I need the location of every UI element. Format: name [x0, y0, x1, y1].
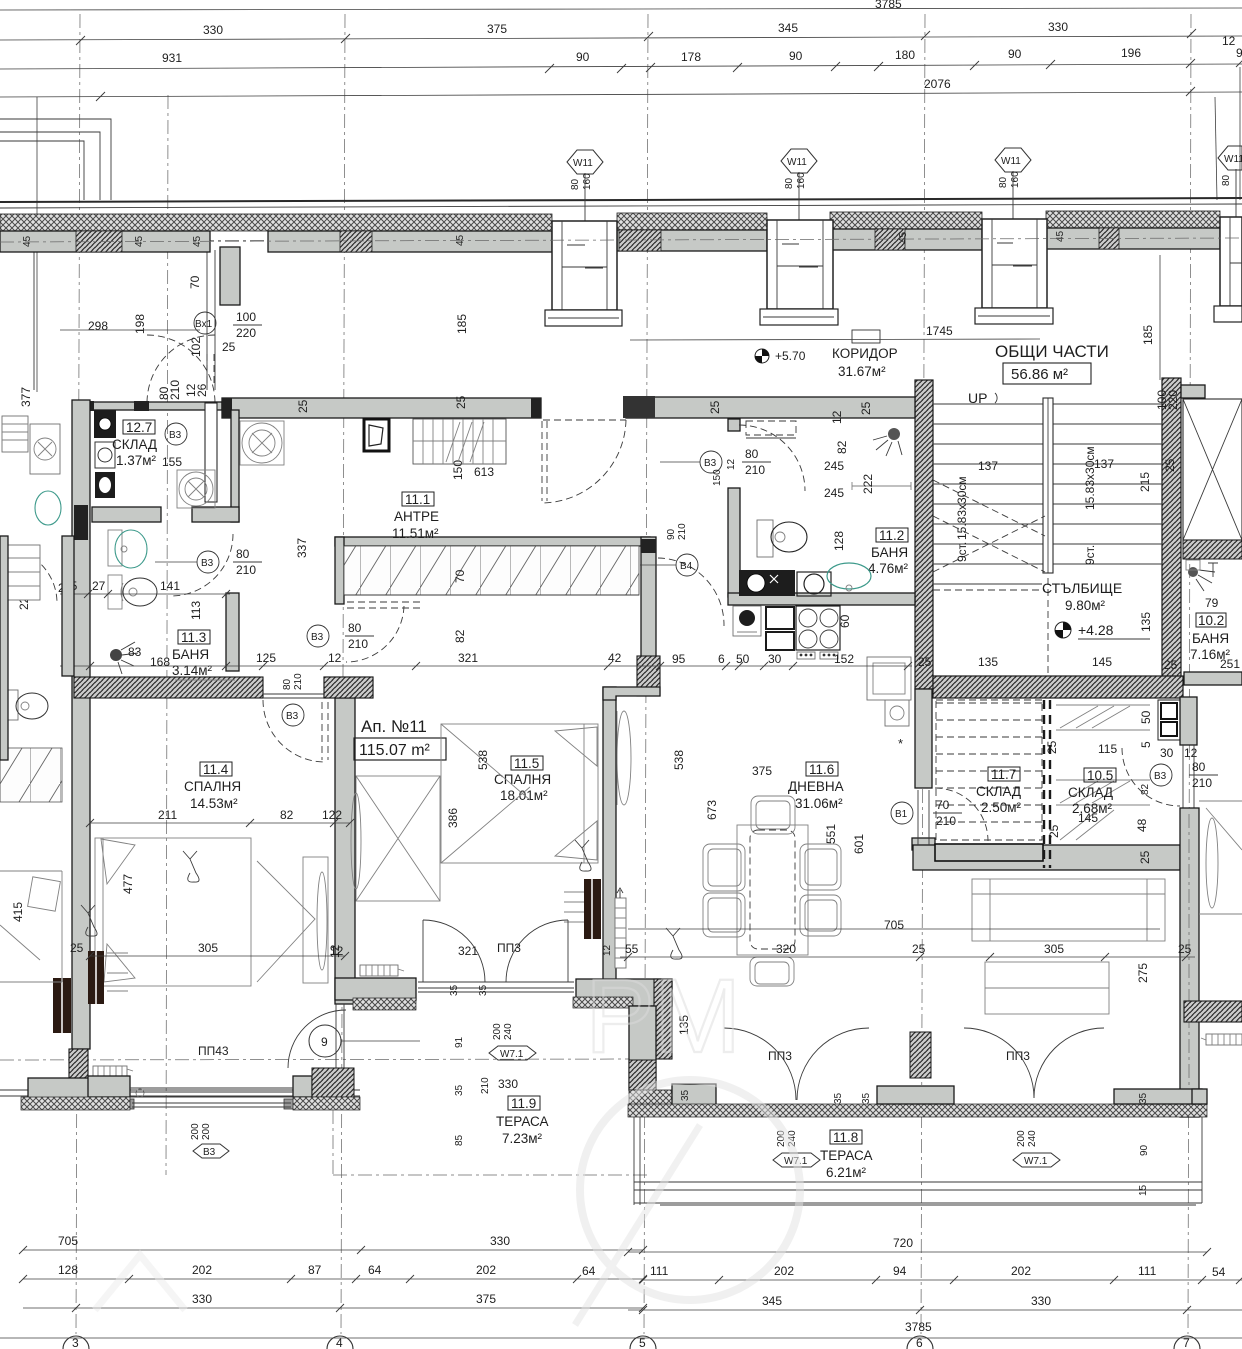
svg-text:305: 305 — [198, 941, 218, 955]
bath 11.3 sink — [108, 530, 147, 568]
wall left exterior hatched foot — [69, 1049, 88, 1088]
B3 door closet area — [307, 621, 374, 651]
svg-text:538: 538 — [476, 750, 490, 770]
svg-text:200: 200 — [1016, 1130, 1027, 1147]
svg-text:321: 321 — [458, 651, 478, 665]
bedroom2 south wall — [335, 978, 672, 1010]
top dimension row 3 (931 90 178 90 180 90 196) — [0, 46, 1242, 73]
bedroom1 radiator ticks — [107, 953, 128, 991]
svg-text:141: 141 — [160, 579, 180, 593]
svg-text:25: 25 — [918, 655, 932, 669]
stairwell bottom wall — [933, 676, 1183, 698]
right terrace door sills — [877, 1032, 1207, 1104]
living terrace door 1 arcs — [724, 1028, 869, 1100]
svg-text:12: 12 — [830, 410, 844, 424]
bath 11.3 door dashed — [171, 534, 233, 596]
window pp43 threshold — [130, 1044, 293, 1107]
svg-text:ПП3: ПП3 — [768, 1049, 792, 1063]
skl wc dark — [95, 472, 115, 498]
svg-text:128: 128 — [58, 1263, 78, 1277]
bathroom 10.2 neighbour — [1188, 563, 1240, 671]
svg-text:330: 330 — [490, 1234, 510, 1248]
corridor label — [832, 330, 898, 379]
svg-text:4.76м²: 4.76м² — [868, 561, 909, 576]
svg-text:64: 64 — [368, 1263, 382, 1277]
svg-text:11.2: 11.2 — [879, 528, 904, 543]
svg-text:25: 25 — [296, 399, 310, 413]
bedroom1 dim row — [70, 808, 354, 960]
living dim row — [620, 918, 1195, 1035]
svg-text:90: 90 — [666, 528, 677, 540]
room label bath 11.2 — [868, 528, 909, 576]
svg-text:В3: В3 — [201, 558, 214, 569]
svg-text:6.21м²: 6.21м² — [826, 1165, 867, 1180]
svg-text:В3: В3 — [311, 632, 324, 643]
window W11 #4 right edge — [1214, 146, 1242, 322]
svg-text:СКЛАД: СКЛАД — [1068, 785, 1113, 800]
reinforced column segments in top wall — [76, 228, 1119, 252]
lamp symbol bedroom1 — [183, 851, 199, 882]
svg-text:26: 26 — [195, 383, 209, 397]
small 45 labels on wall band — [22, 230, 1066, 247]
bedroom2 radiator — [584, 879, 601, 939]
svg-text:137: 137 — [1094, 457, 1114, 471]
shelf icon right edge — [1201, 1034, 1242, 1045]
storage 10.5 door dashed — [1122, 748, 1180, 806]
svg-text:155: 155 — [162, 455, 182, 469]
interior dim line y666 — [60, 579, 912, 670]
left terrace wall slabs — [21, 1068, 360, 1110]
svg-text:145: 145 — [1078, 811, 1098, 825]
svg-text:6: 6 — [916, 1336, 923, 1349]
svg-text:*: * — [898, 736, 903, 751]
svg-text:82: 82 — [453, 629, 467, 643]
svg-text:210: 210 — [348, 637, 368, 651]
svg-text:202: 202 — [476, 1263, 496, 1277]
svg-text:102: 102 — [189, 337, 203, 357]
svg-text:83: 83 — [128, 645, 142, 659]
towel ladder — [615, 888, 626, 968]
svg-text:202: 202 — [192, 1263, 212, 1277]
svg-text:30: 30 — [768, 652, 782, 666]
dimension 185 vertical right — [1141, 255, 1160, 380]
svg-text:12: 12 — [602, 944, 613, 956]
svg-text:80: 80 — [1221, 174, 1232, 186]
svg-text:6: 6 — [718, 652, 725, 666]
svg-text:W11: W11 — [573, 158, 593, 169]
bath 11.2 shelf dashed — [746, 421, 796, 438]
svg-text:60: 60 — [838, 614, 852, 628]
bath 11.2 dims — [296, 395, 875, 628]
svg-text:45: 45 — [1055, 230, 1066, 242]
svg-text:35: 35 — [454, 1084, 465, 1096]
svg-text:ПП43: ПП43 — [198, 1044, 229, 1058]
storage 11.7 door B1 dashed — [935, 788, 988, 841]
closet sliding door dashed — [347, 602, 420, 608]
svg-text:210: 210 — [1192, 776, 1212, 790]
svg-text:87: 87 — [308, 1263, 322, 1277]
svg-text:80: 80 — [282, 678, 293, 690]
svg-text:12: 12 — [330, 944, 344, 958]
svg-text:210: 210 — [480, 1077, 491, 1094]
svg-text:160: 160 — [582, 173, 593, 190]
svg-text:70: 70 — [453, 569, 467, 583]
W7.1 hexagon terrace door 2 — [1013, 1130, 1060, 1167]
kitchen-bath west wall — [728, 419, 740, 597]
skl sink unit dark — [94, 410, 116, 468]
svg-text:210: 210 — [936, 814, 956, 828]
svg-text:В4: В4 — [680, 561, 693, 572]
svg-text:+5.70: +5.70 — [775, 349, 806, 363]
svg-text:90: 90 — [576, 50, 590, 64]
bath 11.2 towel rail — [852, 482, 911, 490]
room label skl 12.7 — [112, 420, 187, 469]
svg-text:122: 122 — [322, 808, 342, 822]
storage dims — [1047, 811, 1152, 864]
svg-text:375: 375 — [752, 764, 772, 778]
top facade double line — [0, 198, 1242, 208]
stair central rail — [1043, 398, 1053, 573]
window W11 #1 — [545, 150, 622, 326]
room label antre 11.1 — [392, 492, 439, 541]
svg-text:160: 160 — [796, 172, 807, 189]
room label skl 11.7 — [976, 767, 1022, 815]
room label bath 11.3 — [172, 630, 213, 678]
svg-text:9ст.: 9ст. — [1083, 545, 1097, 565]
svg-text:ТЕРАСА: ТЕРАСА — [496, 1114, 549, 1129]
kitchen sink unit bath wall — [739, 570, 831, 596]
svg-text:В3: В3 — [203, 1147, 216, 1158]
svg-text:375: 375 — [476, 1292, 496, 1306]
svg-text:125: 125 — [256, 651, 276, 665]
svg-text:55: 55 — [625, 942, 639, 956]
svg-text:45: 45 — [22, 235, 33, 247]
apartment label — [354, 717, 446, 760]
terrace 11.9 boundary dashdot — [333, 1110, 648, 1175]
svg-text:200: 200 — [492, 1023, 503, 1040]
svg-text:56.86 м²: 56.86 м² — [1011, 366, 1068, 383]
svg-text:215: 215 — [1138, 472, 1152, 492]
svg-text:7.23м²: 7.23м² — [502, 1131, 543, 1146]
svg-text:113: 113 — [189, 601, 203, 620]
stairwell label — [1042, 580, 1150, 639]
construction axis 4 vertical — [341, 14, 345, 1334]
svg-text:25: 25 — [859, 401, 873, 415]
svg-text:11.3: 11.3 — [181, 630, 206, 645]
svg-text:135: 135 — [978, 655, 998, 669]
wall washniche east — [231, 410, 239, 522]
shaft box antre ne — [364, 419, 389, 451]
bath10.2 south wall — [1184, 672, 1242, 685]
svg-text:100: 100 — [236, 310, 256, 324]
bedroom1 bed — [95, 838, 315, 986]
svg-text:12: 12 — [328, 651, 342, 665]
wall skl top thin — [84, 401, 222, 411]
svg-text:185: 185 — [455, 314, 469, 334]
washer in skl — [177, 470, 215, 508]
horizontal axis left lower — [0, 1059, 640, 1060]
small shaft below stairwell — [1045, 700, 1198, 760]
svg-text:198: 198 — [133, 314, 147, 334]
svg-text:Ап. №11: Ап. №11 — [361, 717, 427, 736]
elevator shaft right top — [1181, 385, 1242, 559]
svg-text:СПАЛНЯ: СПАЛНЯ — [494, 772, 551, 787]
svg-text:БАНЯ: БАНЯ — [871, 545, 908, 560]
svg-text:330: 330 — [1048, 20, 1068, 34]
neighbour bed partial — [0, 871, 62, 982]
junction hatched block — [324, 677, 373, 698]
wall bedroom2-living — [603, 687, 660, 981]
watermark letters — [95, 958, 800, 1325]
top dimension row 1 line — [0, 0, 1242, 11]
apartment entrance door dashed — [541, 420, 626, 503]
svg-text:601: 601 — [852, 834, 866, 854]
B3 door antre-bedroom1 — [282, 673, 304, 726]
neighbour radiator — [53, 978, 71, 1033]
svg-text:70: 70 — [188, 275, 202, 289]
svg-text:5: 5 — [1139, 741, 1153, 748]
svg-text:14.53м²: 14.53м² — [190, 796, 238, 811]
closet wardrobe hatch — [344, 546, 639, 595]
svg-text:1745: 1745 — [926, 324, 953, 338]
svg-text:11.8: 11.8 — [833, 1130, 858, 1145]
lamp symbol left — [81, 905, 97, 936]
sofa living — [972, 879, 1165, 941]
svg-text:330: 330 — [203, 23, 223, 37]
closet top wall — [335, 537, 656, 672]
neighbour washer column left — [2, 416, 61, 720]
svg-text:11.7: 11.7 — [991, 767, 1016, 782]
svg-text:27: 27 — [92, 579, 106, 593]
bath 11.2 wc — [757, 520, 807, 557]
svg-text:В1: В1 — [895, 809, 908, 820]
svg-text:+4.28: +4.28 — [1078, 622, 1114, 638]
dimensions near entrance — [60, 275, 262, 357]
neighbour wardrobe hatched — [0, 748, 62, 802]
svg-text:91: 91 — [454, 1036, 465, 1048]
svg-text:W11: W11 — [787, 157, 807, 168]
svg-text:64: 64 — [582, 1264, 596, 1278]
svg-text:31.67м²: 31.67м² — [838, 364, 886, 379]
svg-text:245: 245 — [824, 486, 844, 500]
neighbour bed right edge — [1199, 801, 1242, 914]
svg-text:245: 245 — [824, 459, 844, 473]
dimension 185 vertical left — [455, 314, 469, 334]
door jamb pillar hatched — [654, 979, 672, 1059]
svg-text:5: 5 — [639, 1336, 646, 1349]
svg-text:25: 25 — [1164, 658, 1178, 672]
bath 11.3 shower head — [110, 642, 138, 674]
svg-text:2076: 2076 — [924, 77, 951, 91]
svg-text:551: 551 — [824, 824, 838, 844]
svg-text:220: 220 — [1166, 390, 1180, 410]
svg-text:ОБЩИ ЧАСТИ: ОБЩИ ЧАСТИ — [995, 342, 1109, 361]
secondary axis vertical x167 — [166, 95, 168, 1175]
svg-text:15.83х30см: 15.83х30см — [1083, 446, 1097, 510]
svg-text:12: 12 — [1184, 746, 1198, 760]
entrance opening stub wall — [220, 247, 240, 305]
svg-text:12: 12 — [726, 458, 737, 470]
svg-text:35: 35 — [861, 1092, 872, 1104]
svg-text:345: 345 — [778, 21, 798, 35]
svg-text:222: 222 — [861, 474, 875, 494]
svg-text:185: 185 — [1141, 325, 1155, 345]
bath 10.2 small fixtures — [1186, 560, 1200, 570]
top wall insulation crosshatch band — [0, 211, 1220, 231]
construction axis 5 vertical — [644, 14, 648, 1334]
window W11 #2 — [760, 149, 838, 325]
svg-text:111: 111 — [1138, 1264, 1157, 1278]
svg-text:128: 128 — [832, 531, 846, 551]
towel rail bath 11.3 — [175, 679, 235, 681]
storage 10.5 shelves — [1056, 705, 1150, 840]
wall antre top — [222, 398, 541, 418]
svg-text:35: 35 — [478, 984, 489, 996]
svg-text:220: 220 — [236, 326, 256, 340]
svg-text:145: 145 — [1092, 655, 1112, 669]
svg-text:298: 298 — [88, 319, 108, 333]
wall skl east — [205, 403, 217, 502]
svg-text:720: 720 — [893, 1236, 913, 1250]
svg-text:931: 931 — [162, 51, 182, 65]
right vertical dimension line — [1215, 67, 1240, 200]
svg-text:12.7: 12.7 — [126, 420, 152, 435]
svg-text:25: 25 — [1047, 824, 1061, 838]
stairwell left wall — [915, 380, 933, 689]
storage 11.7 understair dashed shelves — [936, 700, 1042, 840]
svg-text:705: 705 — [58, 1234, 78, 1248]
left dims bath — [11, 581, 203, 922]
svg-text:РМ: РМ — [585, 958, 741, 1075]
kitchen appliances row — [733, 606, 840, 659]
bedroom2 dims — [330, 750, 490, 958]
top wall masonry band grey — [0, 228, 1220, 252]
svg-text:11.4: 11.4 — [203, 762, 229, 777]
svg-text:90: 90 — [789, 49, 803, 63]
bottom dim rows right — [0, 1236, 1242, 1338]
bedroom2 radiator fins — [564, 892, 584, 922]
svg-text:330: 330 — [192, 1292, 212, 1306]
svg-text:В3: В3 — [704, 458, 717, 469]
svg-text:СТЪЛБИЩЕ: СТЪЛБИЩЕ — [1042, 580, 1122, 596]
wardrobe lens bedroom2 — [617, 711, 631, 805]
wall corridor south — [623, 396, 915, 418]
bedroom1 radiator — [88, 951, 104, 1004]
svg-text:ДНЕВНА: ДНЕВНА — [788, 779, 844, 794]
svg-text:180: 180 — [895, 48, 915, 62]
svg-text:54: 54 — [1212, 1265, 1226, 1279]
room label bedroom 11.5 — [494, 756, 551, 803]
svg-text:320: 320 — [776, 942, 796, 956]
wall band centerline — [0, 238, 1242, 242]
svg-text:94: 94 — [893, 1264, 907, 1278]
neighbour left edge wall — [0, 536, 74, 760]
W7.1 hexagon bedroom2 — [489, 1023, 536, 1060]
svg-text:31.06м²: 31.06м² — [795, 796, 843, 811]
svg-text:W7.1: W7.1 — [1024, 1156, 1048, 1167]
svg-text:11.1: 11.1 — [405, 492, 430, 507]
right terrace crosshatch band — [628, 1104, 1207, 1117]
B1 door storage — [891, 798, 962, 828]
svg-text:W11: W11 — [1001, 156, 1021, 167]
svg-text:82: 82 — [1140, 783, 1151, 795]
svg-text:115: 115 — [1098, 742, 1117, 756]
W7.1 hexagon terrace door 1 — [773, 1130, 820, 1167]
svg-text:42: 42 — [608, 651, 622, 665]
svg-text:705: 705 — [884, 918, 904, 932]
svg-text:80: 80 — [570, 178, 581, 190]
right exterior hatched wall — [1180, 697, 1199, 1117]
svg-text:210: 210 — [745, 463, 765, 477]
svg-text:35: 35 — [833, 1092, 844, 1104]
svg-text:10.2: 10.2 — [1198, 613, 1224, 628]
stairwell right wall — [1162, 378, 1181, 689]
wall skl bottom — [92, 507, 239, 522]
right edge small dims — [1155, 34, 1236, 410]
svg-text:168: 168 — [150, 655, 170, 669]
svg-text:25: 25 — [1163, 458, 1177, 472]
svg-text:321: 321 — [458, 944, 478, 958]
svg-text:ПП3: ПП3 — [497, 941, 521, 955]
svg-text:70: 70 — [936, 798, 950, 812]
svg-text:111: 111 — [650, 1264, 669, 1278]
construction axis 6 vertical — [921, 14, 925, 1334]
svg-text:В3: В3 — [169, 430, 182, 441]
svg-text:80: 80 — [998, 176, 1009, 188]
svg-text:137: 137 — [978, 459, 998, 473]
bedroom2 wardrobe X — [351, 776, 440, 901]
svg-text:30: 30 — [1160, 746, 1174, 760]
room label terrace 11.8 — [820, 1130, 873, 1180]
svg-text:50: 50 — [736, 652, 750, 666]
svg-text:Bx1: Bx1 — [195, 319, 213, 330]
B3 door kitchen top — [660, 447, 771, 486]
svg-text:10.5: 10.5 — [1087, 768, 1113, 783]
wall divider bedrooms — [335, 698, 355, 1068]
svg-text:3785: 3785 — [875, 0, 902, 11]
svg-text:ПП3: ПП3 — [1006, 1049, 1030, 1063]
svg-text:375: 375 — [487, 22, 507, 36]
svg-text:79: 79 — [1205, 596, 1219, 610]
svg-text:477: 477 — [121, 874, 135, 894]
B3 hexagon terrace — [190, 1123, 229, 1158]
svg-text:35: 35 — [449, 984, 460, 996]
svg-text:160: 160 — [1010, 171, 1021, 188]
bedroom2 balcony door arcs — [423, 920, 568, 982]
svg-text:W11: W11 — [1224, 154, 1242, 165]
svg-text:337: 337 — [295, 538, 309, 558]
bath 11.2 shower — [873, 428, 902, 456]
balcony outline top-left neighbour — [0, 119, 215, 390]
svg-text:152: 152 — [834, 652, 854, 666]
room label skl 10.5 — [1068, 768, 1116, 816]
svg-text:673: 673 — [705, 800, 719, 820]
room label living 11.6 — [788, 762, 844, 811]
svg-text:90: 90 — [1008, 47, 1022, 61]
B3 door antre-bath — [155, 547, 262, 577]
svg-text:80: 80 — [745, 447, 759, 461]
lamp symbol bedroom2 — [575, 840, 591, 871]
svg-text:240: 240 — [1027, 1130, 1038, 1147]
closet door dashed — [346, 606, 404, 662]
svg-text:СКЛАД: СКЛАД — [112, 437, 157, 452]
coffee table living — [985, 962, 1109, 1014]
svg-text:18.01м²: 18.01м² — [500, 788, 548, 803]
svg-text:305: 305 — [1044, 942, 1064, 956]
svg-text:2.50м²: 2.50м² — [981, 800, 1022, 815]
svg-text:3: 3 — [72, 1336, 79, 1349]
living sw wall — [629, 1006, 716, 1115]
